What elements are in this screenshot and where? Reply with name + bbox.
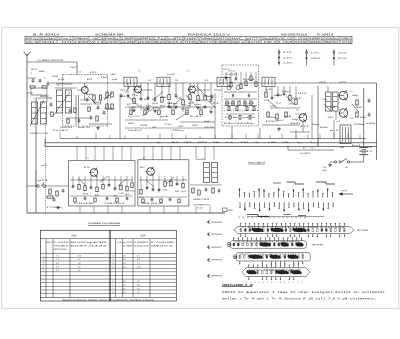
svg-text:Tp4: Tp4 [181, 191, 186, 193]
svg-text:6.23: 6.23 [244, 103, 254, 105]
svg-text:V49k4V: V49k4V [74, 39, 89, 41]
svg-text:CMx: CMx [268, 117, 276, 119]
svg-text:p28: p28 [58, 79, 65, 81]
svg-text:C,R1F8k: C,R1F8k [74, 203, 94, 205]
svg-text:CF0: CF0 [119, 193, 124, 195]
svg-text:7x542: 7x542 [52, 130, 68, 132]
svg-text:254770: 254770 [215, 39, 230, 41]
svg-text:pC9757: pC9757 [105, 42, 120, 44]
svg-text:,21: ,21 [116, 242, 122, 244]
svg-text:M06MC4: M06MC4 [309, 42, 324, 44]
svg-text:V690: V690 [60, 127, 72, 129]
svg-text:21: 21 [273, 217, 275, 219]
svg-text:SP/FM: SP/FM [312, 245, 324, 247]
svg-text:AF117: AF117 [140, 166, 145, 169]
svg-text:8x5: 8x5 [360, 117, 366, 119]
svg-text:2xOC71: 2xOC71 [223, 69, 230, 71]
svg-text:T642TF3: T642TF3 [104, 203, 124, 205]
svg-text:Tr 1: Tr 1 [138, 70, 141, 73]
svg-text:8C02xpF3R: 8C02xpF3R [71, 242, 110, 244]
svg-text:470pF: 470pF [322, 170, 327, 172]
svg-text:9F6: 9F6 [52, 76, 58, 78]
svg-text:mellan x Tr 4 och x Tr 4.Juste: mellan x Tr 4 och x Tr 4.Justera R 16 ti… [222, 296, 377, 300]
svg-text:Spänningarna mätta med rörvolt: Spänningarna mätta med rörvoltmeter mell… [62, 298, 155, 301]
svg-text:8pk: 8pk [86, 94, 95, 96]
svg-text:T7k: T7k [131, 95, 138, 97]
svg-text:HLM: HLM [72, 236, 77, 238]
svg-text:C31: C31 [148, 80, 151, 82]
svg-text:C4: C4 [49, 98, 51, 100]
svg-text:01Vpk3: 01Vpk3 [134, 246, 149, 248]
svg-text:,R8: ,R8 [120, 96, 126, 98]
svg-text:1: 1 [293, 282, 294, 284]
svg-text:FVkRp.: FVkRp. [105, 39, 120, 41]
svg-text:8: 8 [280, 282, 281, 284]
svg-text:x66: x66 [366, 123, 375, 125]
svg-text:171: 171 [300, 126, 309, 128]
svg-text:V2.1,6: V2.1,6 [90, 42, 104, 44]
svg-text:72Vk1.: 72Vk1. [41, 42, 57, 44]
svg-text:F.5890: F.5890 [215, 42, 230, 44]
svg-text:C08: C08 [160, 97, 167, 99]
svg-text:24: 24 [286, 217, 288, 219]
svg-text:3: 3 [301, 282, 302, 284]
svg-text:AM 30414/1618: AM 30414/1618 [281, 34, 308, 37]
svg-text:FpFF92: FpFF92 [294, 42, 308, 44]
svg-text:V3C.1M: V3C.1M [26, 42, 39, 44]
svg-text:301: 301 [188, 103, 193, 105]
svg-text:2: 2 [297, 282, 298, 284]
svg-text:Samtl FM: Samtl FM [167, 73, 175, 76]
svg-text:,765x: ,765x [170, 130, 184, 132]
svg-text:26p53R: 26p53R [262, 39, 277, 41]
svg-text:4kVC,.: 4kVC,. [231, 39, 246, 41]
svg-text:RADIOLA 1513 V: RADIOLA 1513 V [188, 34, 231, 37]
svg-text:T-10: T-10 [350, 118, 353, 120]
svg-text:895x74: 895x74 [30, 133, 48, 135]
svg-text:,67T76: ,67T76 [341, 42, 352, 44]
svg-text:C1: C1 [30, 73, 32, 75]
svg-text:2.9MFR: 2.9MFR [121, 39, 136, 41]
svg-text:FM9: FM9 [196, 100, 203, 102]
svg-text:32VV8: 32VV8 [54, 249, 67, 251]
svg-text:p96: p96 [112, 79, 117, 81]
svg-text:R4M,x1: R4M,x1 [231, 42, 246, 44]
svg-text:k4,0: k4,0 [78, 127, 90, 129]
svg-text:AF 116: AF 116 [84, 166, 90, 169]
svg-text:612kk2: 612kk2 [41, 39, 57, 41]
svg-text:C38: C38 [175, 80, 178, 82]
svg-text:3: 3 [258, 282, 259, 284]
svg-text:1,2V--: 1,2V-- [283, 63, 294, 65]
svg-text:F.4T: F.4T [190, 116, 202, 118]
svg-text:28F219: 28F219 [153, 42, 167, 44]
svg-text:2.70404F: 2.70404F [151, 242, 178, 244]
svg-text:T-9: T-9 [350, 91, 352, 93]
svg-text:2: 2 [254, 282, 255, 284]
svg-text:C67: C67 [369, 147, 372, 149]
svg-text:0p6: 0p6 [204, 121, 210, 123]
svg-text:17: 17 [256, 217, 258, 219]
svg-text:27: 27 [300, 217, 302, 219]
svg-text:19: 19 [264, 217, 266, 219]
svg-text:R 30414: R 30414 [317, 34, 334, 37]
svg-text:44C34: 44C34 [193, 199, 209, 201]
svg-text:4,7V--: 4,7V-- [311, 52, 322, 54]
svg-text:L2: L2 [57, 85, 59, 87]
svg-text:Smalv/FM: Smalv/FM [197, 159, 205, 161]
svg-text:4,7V--: 4,7V-- [283, 52, 294, 54]
svg-text:Drivtrafo: Drivtrafo [319, 81, 326, 84]
svg-text:464T: 464T [290, 123, 301, 125]
svg-text:8MC5C7: 8MC5C7 [325, 42, 340, 44]
svg-text:Gnd FM: Gnd FM [41, 165, 48, 167]
svg-text:43R8F5: 43R8F5 [309, 39, 324, 41]
svg-text:FR7: FR7 [90, 72, 97, 74]
svg-text:20: 20 [269, 217, 271, 219]
svg-text:Rpp: Rpp [312, 124, 320, 126]
svg-text:7,03: 7,03 [310, 148, 313, 150]
svg-text:22: 22 [278, 217, 280, 219]
svg-text:116: 116 [146, 106, 151, 108]
svg-text:F16947: F16947 [184, 39, 199, 41]
svg-text:1M01V,V: 1M01V,V [151, 246, 175, 248]
svg-text:RT2: RT2 [298, 93, 307, 95]
svg-text:x.p9TC: x.p9TC [168, 39, 183, 41]
svg-text:8F6: 8F6 [128, 123, 134, 125]
svg-text:7958kV: 7958kV [54, 246, 71, 248]
svg-text:23: 23 [282, 217, 284, 219]
svg-text:C,CF33: C,CF33 [294, 39, 308, 41]
svg-text:25: 25 [291, 217, 293, 219]
svg-text:.65: .65 [126, 104, 131, 106]
svg-text:k0p: k0p [144, 99, 150, 101]
svg-text:,130.4: ,130.4 [262, 42, 278, 44]
svg-text:28: 28 [304, 217, 306, 219]
svg-text:6Vp: 6Vp [282, 91, 290, 93]
svg-text:12V.RR: 12V.RR [137, 42, 152, 44]
svg-text:0.4M6C: 0.4M6C [134, 242, 151, 244]
svg-text:V28: V28 [160, 106, 165, 108]
svg-text:8,5V--: 8,5V-- [338, 58, 349, 60]
svg-text:16: 16 [251, 217, 253, 219]
svg-text:9: 9 [284, 282, 285, 284]
svg-text:8V6: 8V6 [320, 127, 328, 129]
svg-text:T-1: T-1 [86, 158, 89, 160]
svg-text:7M2: 7M2 [178, 126, 183, 128]
svg-text:SP/FM: SP/FM [357, 230, 369, 232]
svg-text:6.2: 6.2 [276, 102, 281, 104]
svg-text:SP/F7: SP/F7 [211, 247, 224, 249]
svg-text:5x497: 5x497 [128, 130, 142, 132]
svg-text:RF2: RF2 [175, 191, 180, 193]
svg-text:L1: L1 [33, 98, 35, 100]
svg-text:6,T4x8: 6,T4x8 [278, 42, 293, 44]
svg-text:ALTERNATIV KOPPL.: ALTERNATIV KOPPL. [194, 204, 211, 207]
svg-text:SCHEMA NR.: SCHEMA NR. [95, 34, 126, 37]
svg-text:SP/F4: SP/F4 [211, 276, 224, 278]
svg-text:998: 998 [284, 116, 291, 118]
svg-text:7: 7 [276, 282, 277, 284]
svg-text:6: 6 [271, 282, 272, 284]
svg-text:44T: 44T [95, 195, 100, 197]
svg-text:2xOC72: 2xOC72 [339, 82, 346, 84]
svg-text:37xx.1: 37xx.1 [58, 39, 73, 41]
svg-text:R4Tx12: R4Tx12 [26, 39, 40, 41]
svg-text:SP/FB: SP/FB [211, 234, 223, 236]
svg-text:T72Mx: T72Mx [46, 207, 62, 209]
svg-text:1.0V10: 1.0V10 [54, 242, 69, 244]
svg-text:OC75: OC75 [295, 114, 300, 116]
svg-text:0pC5,3: 0pC5,3 [168, 42, 183, 44]
svg-text:LV ANT.SPOLE: LV ANT.SPOLE [37, 59, 64, 62]
svg-text:48p: 48p [352, 95, 358, 97]
svg-text:F 2: F 2 [143, 158, 146, 160]
svg-text:5M0: 5M0 [204, 96, 213, 98]
svg-text:p275: p275 [123, 242, 132, 244]
svg-text:6537.V424: 6537.V424 [71, 246, 107, 248]
svg-text:Vevax. läge LV: Vevax. läge LV [248, 162, 266, 164]
svg-text:för CB2: för CB2 [197, 207, 203, 210]
svg-text:V3C,02: V3C,02 [278, 39, 293, 41]
svg-text:R4.82,x: R4.82,x [142, 203, 162, 205]
svg-text:8kCT74: 8kCT74 [200, 42, 214, 44]
svg-text:Tr 4: Tr 4 [186, 70, 189, 73]
svg-text:26: 26 [295, 217, 297, 219]
svg-text:R21: R21 [205, 80, 208, 82]
svg-text:9T2: 9T2 [171, 108, 176, 110]
svg-text:18: 18 [260, 217, 262, 219]
svg-text:3FxT16: 3FxT16 [247, 42, 261, 44]
svg-text:6p8: 6p8 [143, 108, 148, 110]
svg-text:p9,23M: p9,23M [121, 42, 135, 44]
svg-text:0: 0 [289, 282, 290, 284]
svg-text:tA5l3 in apparaten i läge FV u: tA5l3 in apparaten i läge FV utan insign… [222, 290, 386, 294]
svg-text:3C0: 3C0 [152, 103, 158, 105]
svg-text:.p71: .p71 [36, 180, 48, 182]
svg-text:TV84kV: TV84kV [200, 39, 214, 41]
svg-text:F3xC04230p: F3xC04230p [224, 123, 254, 125]
svg-text:0k5: 0k5 [125, 194, 130, 196]
svg-text:AF116: AF116 [87, 78, 92, 81]
svg-text:314: 314 [129, 108, 134, 110]
svg-text:HLM: HLM [141, 236, 146, 238]
svg-text:5: 5 [267, 282, 268, 284]
svg-text:4kx: 4kx [196, 104, 201, 106]
svg-text:0,65V-: 0,65V- [311, 58, 322, 60]
svg-text:V0M9x2: V0M9x2 [325, 39, 340, 41]
svg-text:F451: F451 [243, 79, 255, 81]
svg-text:13: 13 [238, 217, 240, 219]
svg-text:.x7: .x7 [199, 108, 204, 110]
svg-text:4: 4 [263, 282, 264, 284]
svg-text:C2: C2 [44, 78, 46, 80]
svg-text:VVMRx7: VVMRx7 [341, 39, 352, 41]
svg-text:..T171: ..T171 [58, 42, 74, 44]
svg-text:SP/FB: SP/FB [228, 210, 233, 212]
svg-text:C58: C58 [323, 167, 326, 169]
svg-text:p,1: p,1 [330, 130, 339, 132]
svg-text:T-8: T-8 [296, 110, 299, 112]
svg-text:SP/F4: SP/F4 [211, 260, 224, 262]
svg-text:14: 14 [242, 217, 244, 219]
svg-text:5VRT: 5VRT [226, 74, 238, 76]
svg-text:842: 842 [40, 96, 49, 98]
svg-text:..x6C3: ..x6C3 [90, 39, 104, 41]
svg-text:15: 15 [247, 217, 249, 219]
svg-text:,76: ,76 [288, 103, 293, 105]
svg-text:SP/FB: SP/FB [211, 222, 223, 224]
svg-text:k6p: k6p [292, 119, 298, 121]
svg-text:px4: px4 [274, 95, 282, 97]
svg-text:VCp: VCp [322, 99, 327, 101]
svg-text:k5R4Fk: k5R4Fk [137, 39, 152, 41]
svg-text:C,F.p2: C,F.p2 [153, 39, 167, 41]
svg-text:1,2V--: 1,2V-- [283, 57, 294, 59]
svg-text:TTF25p: TTF25p [184, 42, 199, 44]
svg-text:8R2: 8R2 [330, 107, 335, 109]
svg-text:Tk6: Tk6 [100, 77, 108, 79]
svg-text:226: 226 [185, 108, 190, 110]
svg-text:pVTTTT: pVTTTT [247, 39, 261, 41]
svg-text:1,2V--: 1,2V-- [338, 52, 349, 54]
svg-text:INSTÄLLNING R 16: INSTÄLLNING R 16 [222, 283, 253, 287]
svg-text:PERMEABILITETSDIAGRAM: PERMEABILITETSDIAGRAM [88, 222, 120, 225]
svg-text:3.9V53: 3.9V53 [74, 42, 89, 44]
svg-text:V31: V31 [345, 167, 348, 169]
svg-text:02Mp: 02Mp [354, 124, 364, 126]
svg-text:2xAF4: 2xAF4 [110, 73, 115, 76]
svg-text:424: 424 [292, 98, 301, 100]
svg-text:TTx: TTx [164, 124, 172, 126]
svg-text:F726: F726 [225, 103, 235, 105]
